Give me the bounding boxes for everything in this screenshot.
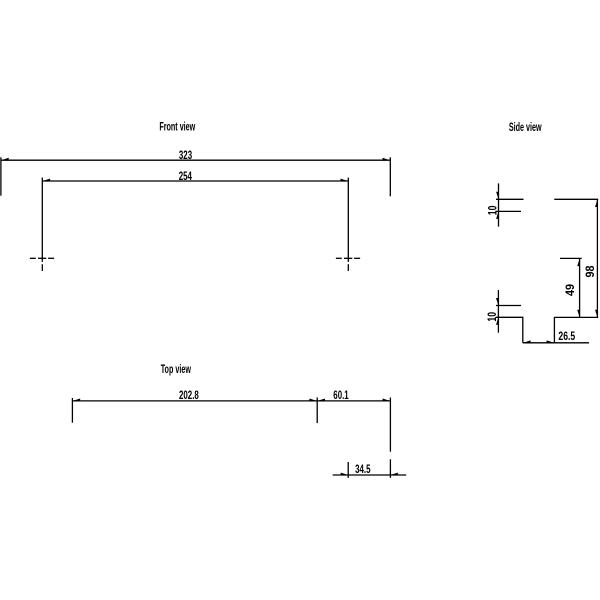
svg-text:98: 98 [585, 265, 598, 277]
svg-text:254: 254 [179, 171, 192, 184]
svg-text:323: 323 [179, 150, 192, 163]
svg-text:10: 10 [487, 312, 500, 322]
svg-text:10: 10 [487, 205, 500, 215]
svg-text:60.1: 60.1 [333, 390, 349, 403]
svg-text:49: 49 [564, 284, 577, 296]
svg-text:Top view: Top view [161, 363, 191, 376]
svg-text:202.8: 202.8 [179, 390, 199, 403]
svg-text:26.5: 26.5 [558, 331, 575, 344]
svg-text:Front view: Front view [159, 121, 195, 134]
svg-text:Side view: Side view [509, 121, 542, 134]
svg-text:34.5: 34.5 [355, 464, 371, 477]
